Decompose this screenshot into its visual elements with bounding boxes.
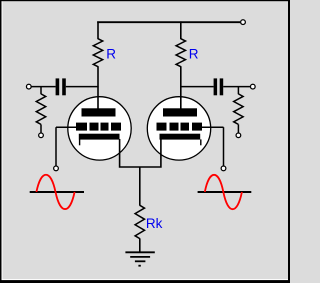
wire right anode node to capacitor	[180, 86, 213, 88]
terminal left input	[26, 84, 31, 89]
triode V2 envelope	[147, 97, 210, 160]
wire cathode bus	[120, 139, 161, 167]
terminal left grid input	[54, 166, 59, 171]
wire C2 to right input terminal	[223, 86, 250, 88]
resistor Rk	[135, 205, 144, 238]
triode V2 cathode	[160, 134, 201, 146]
wire right R to anode	[180, 66, 182, 109]
right signal source sine	[205, 175, 242, 209]
capacitor C2 (right coupling)	[214, 78, 224, 95]
terminal supply top-right	[241, 20, 246, 25]
wire V1 grid drop to input terminal	[55, 127, 57, 166]
terminal right grid input	[221, 166, 226, 171]
resistor R2 (right plate load)	[176, 39, 185, 67]
wire Rk to ground	[139, 238, 141, 252]
terminal left shunt bottom	[39, 133, 44, 138]
wire V1 grid lead	[56, 126, 77, 128]
wire top supply bus	[97, 21, 240, 23]
resistor R3 (left input shunt)	[36, 87, 45, 133]
triode V1 envelope	[68, 97, 131, 160]
triode V2 grid	[157, 123, 203, 131]
wire V2 grid lead	[202, 126, 224, 128]
wire left R to anode	[97, 66, 99, 109]
resistor R1 (left plate load)	[93, 39, 102, 67]
resistor R4 (right input shunt)	[234, 87, 243, 133]
terminal right input	[250, 84, 255, 89]
wire cathode tap to Rk	[139, 167, 141, 206]
wire V2 grid drop to input terminal	[223, 127, 225, 166]
triode V1 cathode	[79, 134, 120, 146]
left signal source sine	[36, 175, 74, 209]
label R (left)	[106, 47, 116, 62]
triode V1 anode plate	[82, 108, 116, 116]
frame highlight bottom	[1, 279, 289, 280]
label R (right)	[189, 47, 199, 62]
terminal right shunt bottom	[236, 133, 241, 138]
ground	[125, 252, 154, 265]
wire bus to right resistor R	[180, 21, 182, 39]
svg-text:R: R	[189, 47, 199, 62]
wire C1 to left anode node	[66, 86, 99, 88]
right signal source axis	[198, 191, 252, 193]
label Rk	[146, 216, 163, 231]
left signal source axis	[30, 191, 84, 193]
frame highlight left	[2, 1, 3, 282]
svg-text:R: R	[106, 47, 116, 62]
capacitor C1 (left coupling)	[56, 78, 66, 95]
wire left input to capacitor	[31, 86, 55, 88]
triode V2 anode plate	[163, 108, 197, 116]
svg-text:Rk: Rk	[146, 216, 163, 231]
wire bus to left resistor R	[97, 21, 99, 39]
triode V1 grid	[76, 123, 121, 131]
